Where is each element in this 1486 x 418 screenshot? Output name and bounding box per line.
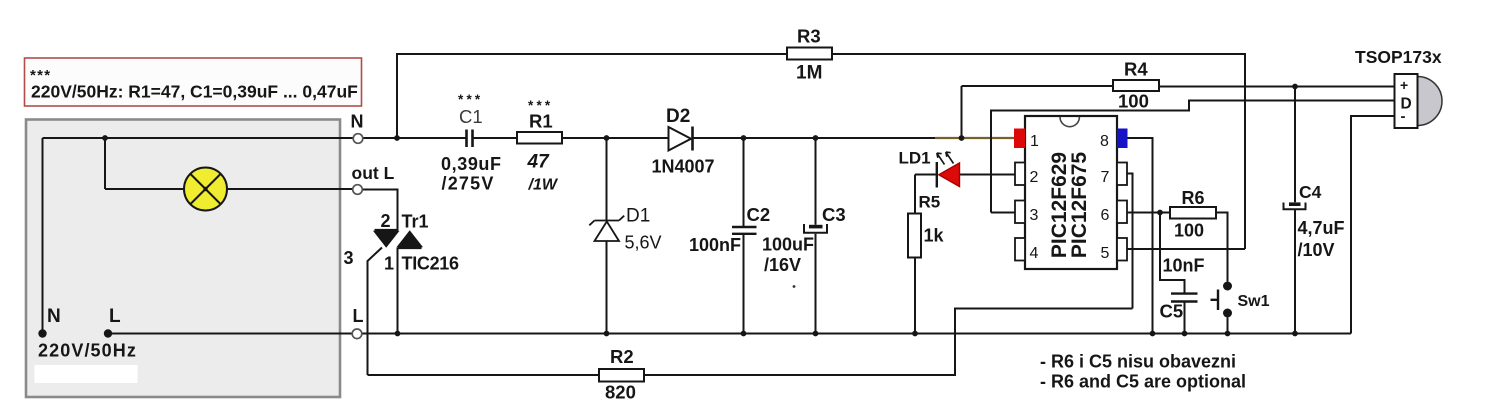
- svg-text:TIC216: TIC216: [402, 254, 460, 274]
- svg-text:C5: C5: [1160, 301, 1184, 322]
- svg-text:LD1: LD1: [899, 149, 931, 168]
- svg-text:TSOP173x: TSOP173x: [1355, 47, 1442, 67]
- svg-text:R4: R4: [1124, 59, 1148, 80]
- svg-text:1: 1: [384, 254, 394, 274]
- svg-text:+: +: [1400, 77, 1408, 93]
- svg-text:2: 2: [1030, 169, 1039, 186]
- svg-text:1k: 1k: [924, 226, 945, 246]
- svg-text:R3: R3: [797, 26, 821, 47]
- svg-text:5,6V: 5,6V: [625, 233, 662, 253]
- svg-text:Sw1: Sw1: [1238, 293, 1270, 310]
- svg-text:D1: D1: [626, 206, 650, 227]
- svg-text:220V/50Hz: R1=47, C1=0,39uF ..: 220V/50Hz: R1=47, C1=0,39uF ... 0,47uF: [31, 82, 358, 102]
- svg-text:-: -: [1401, 108, 1406, 125]
- svg-text:***: ***: [458, 92, 483, 107]
- svg-text:/275V: /275V: [442, 174, 495, 194]
- svg-text:N: N: [47, 306, 61, 327]
- svg-text:100: 100: [1118, 91, 1149, 112]
- svg-text:out L: out L: [352, 163, 395, 183]
- svg-text:D2: D2: [666, 106, 690, 127]
- svg-text:220V/50Hz: 220V/50Hz: [38, 341, 137, 361]
- svg-text:C4: C4: [1299, 182, 1322, 202]
- svg-text:2: 2: [381, 211, 391, 231]
- svg-text:1: 1: [1030, 133, 1039, 150]
- svg-text:R1: R1: [529, 111, 553, 132]
- svg-text:/1W: /1W: [528, 177, 559, 194]
- svg-text:/10V: /10V: [1298, 240, 1335, 260]
- svg-text:10nF: 10nF: [1163, 256, 1205, 276]
- svg-text:R5: R5: [919, 193, 941, 212]
- svg-text:7: 7: [1101, 169, 1110, 186]
- svg-text:6: 6: [1101, 207, 1110, 224]
- svg-text:N: N: [351, 112, 364, 132]
- svg-text:100: 100: [1174, 221, 1204, 241]
- svg-text:8: 8: [1100, 133, 1109, 150]
- svg-text:C3: C3: [822, 204, 846, 225]
- svg-text:47: 47: [527, 152, 551, 173]
- svg-text:L: L: [353, 306, 364, 326]
- svg-text:820: 820: [605, 382, 636, 403]
- svg-text:4: 4: [1030, 245, 1039, 262]
- svg-text:- R6 i C5 nisu obavezni: - R6 i C5 nisu obavezni: [1040, 352, 1236, 372]
- svg-text:1M: 1M: [796, 63, 822, 84]
- svg-text:1N4007: 1N4007: [652, 157, 715, 177]
- svg-text:100nF: 100nF: [689, 235, 741, 255]
- svg-text:R6: R6: [1182, 188, 1205, 208]
- svg-text:- R6 and C5 are optional: - R6 and C5 are optional: [1040, 372, 1246, 392]
- svg-text:3: 3: [344, 248, 354, 268]
- svg-text:C1: C1: [459, 106, 483, 127]
- svg-text:R2: R2: [610, 346, 634, 367]
- svg-text:0,39uF: 0,39uF: [441, 154, 502, 174]
- svg-text:/16V: /16V: [764, 255, 801, 275]
- svg-text:4,7uF: 4,7uF: [1298, 218, 1345, 238]
- svg-text:3: 3: [1030, 207, 1039, 224]
- svg-text:Tr1: Tr1: [402, 212, 429, 232]
- svg-text:5: 5: [1101, 245, 1110, 262]
- svg-text:PIC12F675: PIC12F675: [1068, 152, 1091, 259]
- svg-text:C2: C2: [747, 204, 771, 225]
- svg-text:L: L: [109, 306, 121, 327]
- svg-text:100uF: 100uF: [762, 235, 814, 255]
